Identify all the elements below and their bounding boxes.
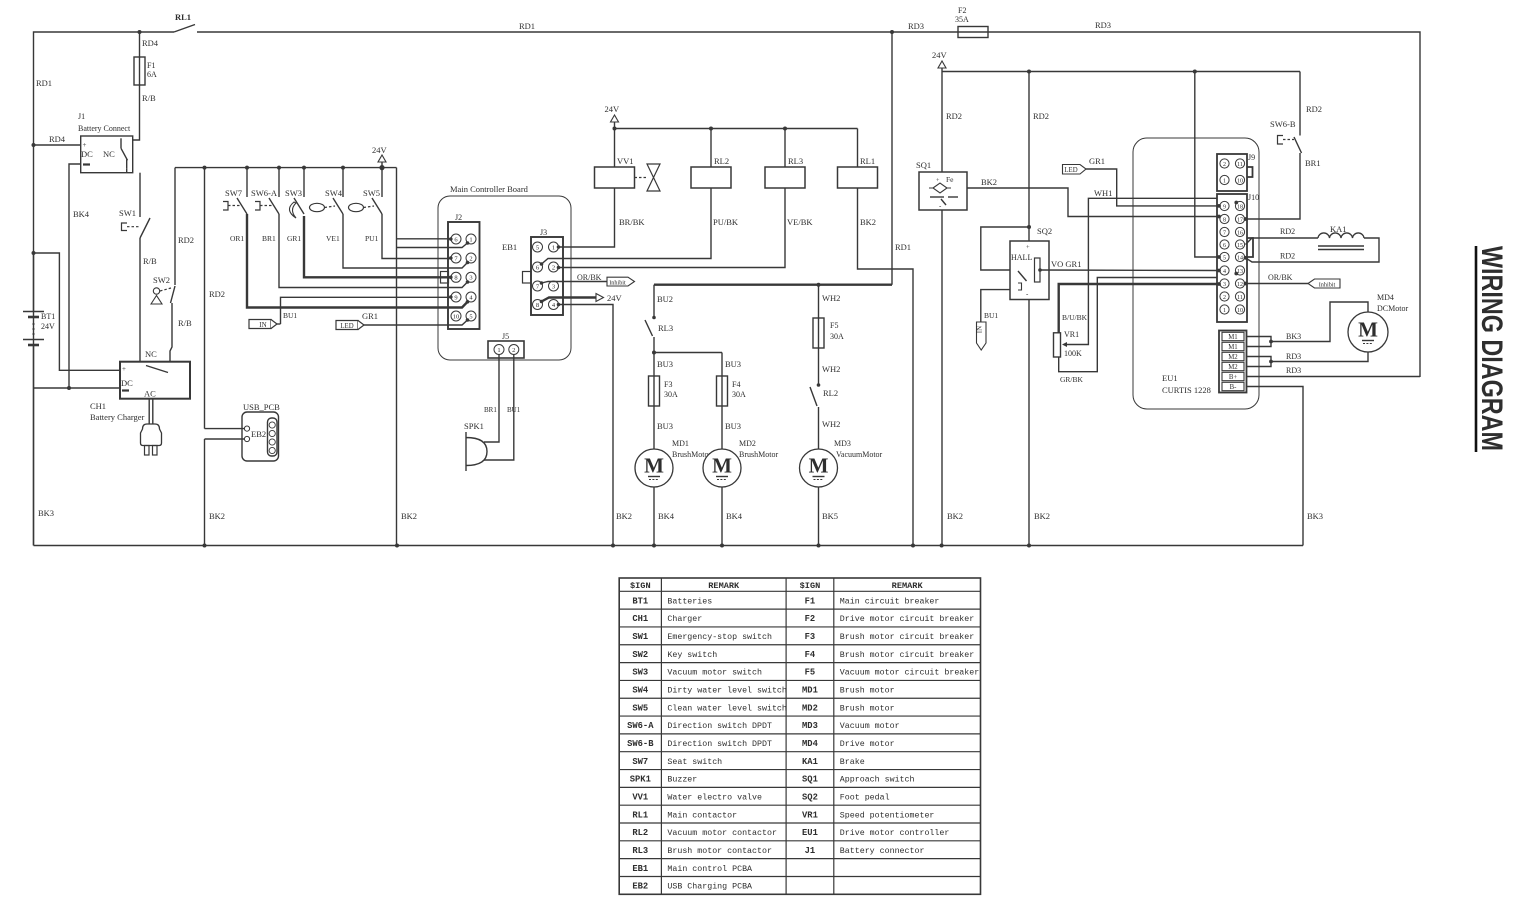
svg-text:RD4: RD4 [142,38,159,48]
svg-text:2: 2 [1223,162,1226,168]
svg-text:RL1: RL1 [860,156,875,166]
svg-text:RD3: RD3 [1095,20,1111,30]
svg-text:GR1: GR1 [1089,156,1105,166]
junction WH2 vacuum branch [817,283,821,287]
svg-text:SW4: SW4 [632,686,649,696]
svg-text:VR1: VR1 [1064,330,1079,339]
svg-text:M: M [1358,318,1378,342]
junction HALL feed [1027,225,1031,229]
svg-text:SW5: SW5 [632,703,648,713]
wire SW6-B chain RD2 [1299,72,1301,136]
svg-text:Drive motor circuit breaker: Drive motor circuit breaker [840,614,974,624]
wire top rail RD1/RD3 left segment [34,32,175,546]
svg-text:M1: M1 [1228,344,1237,351]
connector J10 [1217,194,1247,322]
svg-text:24V: 24V [932,50,948,60]
wire SW3 out to J2 pin8 bold [304,216,451,277]
wire RD4 battery to J1 [34,144,81,146]
wire RD2 KA1 return to J10 pin14 [1246,238,1380,262]
wire J3 pin7 OR/BK to inhibit tag [542,282,608,284]
junction bottom bus [911,544,915,548]
wire J5 pin1 to buzzer BR1 [484,355,499,443]
svg-text:100K: 100K [1064,349,1082,358]
svg-text:GR/BK: GR/BK [1060,375,1084,384]
junction bottom bus [817,544,821,548]
svg-text:MD3: MD3 [802,721,818,731]
svg-text:WH2: WH2 [822,364,840,374]
svg-text:USB Charging PCBA: USB Charging PCBA [667,882,752,892]
svg-text:SW6-B: SW6-B [1270,119,1296,129]
svg-text:1: 1 [1223,178,1226,184]
wire 24V rail RD2 [942,71,1300,73]
wire BU2 drop [653,285,655,318]
wiper arrow VR1 [1062,342,1067,347]
svg-text:BU1: BU1 [507,406,521,414]
wire RD2 drop to SQ1 [941,72,943,173]
svg-text:RL3: RL3 [658,323,673,333]
svg-text:RD2: RD2 [178,235,194,245]
wire SW6-A out to J2 pin3 [279,214,468,288]
svg-text:BU3: BU3 [725,359,741,369]
svg-text:RL2: RL2 [714,156,729,166]
wire R/B SW1 to charger NC [139,238,141,362]
wire IN tag BU1 to J2 pin9 [281,297,451,318]
node top RD3 junction [890,30,894,34]
svg-text:Fe: Fe [946,175,954,184]
switch SW1 emergency stop [139,173,141,217]
svg-text:BU2: BU2 [657,294,673,304]
svg-text:BK2: BK2 [1034,511,1050,521]
svg-text:SW7: SW7 [225,188,242,198]
svg-text:BK4: BK4 [726,511,743,521]
svg-text:VV1: VV1 [617,156,634,166]
svg-text:BR1: BR1 [484,406,497,414]
wire J5 pin2 to buzzer BU1 [484,355,514,461]
svg-text:1: 1 [1223,308,1226,314]
wire SW5 out to J2 pin7 [382,214,451,259]
terminal block M1 M2 B [1219,331,1247,393]
svg-text:EB1: EB1 [632,864,648,874]
svg-text:2: 2 [552,264,555,271]
svg-text:RD2: RD2 [209,289,225,299]
svg-text:EU1: EU1 [802,828,818,838]
svg-text:F2: F2 [958,6,966,15]
svg-text:LED: LED [1064,167,1077,174]
svg-text:Dirty water level switch: Dirty water level switch [667,686,787,696]
svg-text:BK3: BK3 [1307,511,1323,521]
svg-text:RD3: RD3 [1286,366,1301,375]
svg-text:15: 15 [1237,243,1243,249]
wire RD1 vertical [891,32,893,285]
svg-text:USB_PCB: USB_PCB [243,402,280,412]
svg-text:BK2: BK2 [616,511,632,521]
wire SW7 out to J2 pin4 bold [247,214,468,308]
wire BK3 B- down to bus [1246,387,1303,546]
svg-text:Batteries: Batteries [667,596,712,606]
svg-text:Emergency-stop switch: Emergency-stop switch [667,632,772,642]
svg-text:Vacuum motor: Vacuum motor [840,722,900,731]
svg-text:PU1: PU1 [365,234,379,243]
svg-text:Inhibit: Inhibit [609,279,626,286]
svg-text:5: 5 [1223,255,1226,261]
svg-text:SPK1: SPK1 [464,421,484,431]
tag Inhibit at J3 [607,277,635,286]
wire RD3 M2 pair to MD4 [1246,357,1271,367]
svg-text:Inhibit: Inhibit [1319,281,1336,288]
junction bottom bus [720,544,724,548]
connector J9 [1217,154,1247,191]
contact inside J1 [120,138,122,148]
svg-text:6A: 6A [147,70,157,79]
svg-text:EB1: EB1 [502,242,517,252]
wire BK- battery to charger [34,387,121,389]
svg-text:9: 9 [454,294,457,301]
connector J2 [448,222,480,329]
svg-text:SQ2: SQ2 [1037,226,1052,236]
svg-text:9: 9 [1223,204,1226,210]
svg-text:1: 1 [552,244,555,251]
svg-text:MD1: MD1 [672,439,689,448]
svg-text:LED: LED [340,323,353,330]
svg-text:SQ1: SQ1 [916,160,931,170]
svg-text:MD4: MD4 [802,739,819,749]
svg-text:Vacuum motor contactor: Vacuum motor contactor [667,829,777,838]
svg-text:35A: 35A [955,15,969,24]
wire 24V switch bus [175,167,397,169]
svg-text:R/B: R/B [143,256,157,266]
svg-text:BK2: BK2 [981,177,997,187]
svg-text:Main contactor: Main contactor [667,810,737,820]
svg-text:6: 6 [1223,243,1226,249]
svg-text:Key switch: Key switch [667,650,717,660]
relay coil RL1 [857,129,859,168]
wire BK2 USB PCB to bus [204,439,206,546]
svg-text:RD1: RD1 [519,21,535,31]
svg-text:F5: F5 [830,321,838,330]
svg-text:14: 14 [1237,255,1243,261]
junction bottom bus [940,544,944,548]
wire 24V to J2 pin1 [397,243,468,248]
svg-text:BU3: BU3 [657,421,673,431]
svg-text:Direction switch DPDT: Direction switch DPDT [667,721,772,731]
svg-text:SW4: SW4 [325,188,343,198]
svg-text:BR1: BR1 [1305,158,1321,168]
svg-text:4: 4 [1223,269,1226,275]
svg-text:24V: 24V [605,104,621,114]
svg-text:EU1: EU1 [1162,373,1178,383]
svg-text:BrushMotor: BrushMotor [739,450,778,459]
tag IN flag BU1 [249,320,271,329]
svg-text:SW6-A: SW6-A [627,721,654,731]
svg-text:30A: 30A [664,390,678,399]
svg-text:J1: J1 [78,112,85,121]
power arrow 24V above bus [379,165,384,170]
svg-text:J10: J10 [1248,193,1259,202]
wire WH2 bold horizontal [654,284,892,286]
svg-text:RD2: RD2 [946,111,962,121]
svg-text:BK4: BK4 [658,511,675,521]
svg-text:BK2: BK2 [401,511,417,521]
svg-text:KA1: KA1 [802,757,818,767]
svg-text:Approach switch: Approach switch [840,775,915,785]
wire OR/BK J10 pin12 to inhibit [1246,283,1309,285]
svg-text:J9: J9 [1248,153,1255,162]
svg-text:Speed potentiometer: Speed potentiometer [840,810,935,820]
svg-text:11: 11 [1237,295,1243,301]
power arrow 24V right rail [938,61,946,68]
svg-text:RD2: RD2 [1280,227,1295,236]
svg-text:10: 10 [1237,178,1243,184]
svg-text:24V: 24V [372,145,388,155]
svg-text:SW6-A: SW6-A [251,188,278,198]
wire top rail to F2 [197,31,958,33]
svg-text:OR/BK: OR/BK [1268,273,1293,282]
switch SW6-A [277,166,281,170]
svg-text:NC: NC [145,349,157,359]
fuse F1 6A [139,57,141,85]
switch SW7 [245,166,249,170]
svg-text:WH2: WH2 [822,419,840,429]
drive controller EU1 outline [1133,138,1259,409]
svg-text:J3: J3 [540,228,547,237]
pin bump J2 pin8 [441,272,449,284]
svg-text:8: 8 [1223,217,1226,223]
svg-text:VE1: VE1 [326,234,340,243]
svg-text:RD2: RD2 [1280,252,1295,261]
svg-text:RD2: RD2 [1033,111,1049,121]
svg-text:AC: AC [144,389,156,399]
svg-text:SW1: SW1 [119,208,136,218]
svg-text:CH1: CH1 [90,401,106,411]
svg-text:BU1: BU1 [984,311,998,320]
svg-text:F1: F1 [805,596,816,606]
svg-text:SPK1: SPK1 [630,775,651,785]
svg-text:M2: M2 [1228,354,1238,361]
wire RL1 coil BK2 to bus [858,188,914,546]
wire HALL bottom-left to IN tag [981,290,1010,322]
battery BT1 24V [33,253,35,311]
connector J3 [531,237,563,315]
svg-text:MD1: MD1 [802,686,818,696]
svg-text:RD2: RD2 [1306,104,1322,114]
svg-text:J5: J5 [502,332,509,341]
svg-text:BK5: BK5 [822,511,838,521]
svg-text:HALL: HALL [1011,253,1032,262]
svg-text:5: 5 [536,244,539,251]
svg-text:BK3: BK3 [1286,332,1301,341]
contact RL3 brush [652,316,656,320]
junction bottom bus [1027,544,1031,548]
svg-text:8: 8 [536,302,539,309]
valve VV1 coil [595,167,635,188]
svg-text:GR1: GR1 [362,311,378,321]
svg-text:F5: F5 [805,668,816,678]
AC plug of charger [148,399,150,424]
svg-text:BT1: BT1 [41,312,55,321]
svg-text:KA1: KA1 [1330,224,1347,234]
wire BK2 SQ1 down to bus [941,210,943,546]
svg-text:EB2: EB2 [251,429,266,439]
junction brush branches [652,351,656,355]
svg-text:M: M [644,454,664,478]
wire bus end down BK2 long vertical [396,168,398,546]
svg-text:REMARK: REMARK [708,581,740,591]
svg-text:RL1: RL1 [632,810,648,820]
fuse F4 30A [721,376,723,406]
wire BK3 M1 pair to MD4 [1246,337,1271,347]
svg-text:8: 8 [454,275,457,282]
svg-text:BU1: BU1 [283,311,297,320]
svg-text:5: 5 [469,313,472,320]
legend table [619,578,980,894]
wire RD3 B+ to border [1246,376,1420,378]
tag IN flag vertical BU1 [977,322,987,350]
svg-text:F4: F4 [732,380,740,389]
svg-text:F1: F1 [147,61,155,70]
junction bottom bus [203,544,207,548]
svg-text:PU/BK: PU/BK [713,217,739,227]
svg-text:Charger: Charger [667,614,702,624]
svg-text:VO GR1: VO GR1 [1051,259,1081,269]
connector J5 [488,341,524,358]
wire RD4 drop to F1 [139,32,141,57]
svg-text:24V: 24V [607,293,623,303]
wire WH2 F5 to RL2 contact [818,348,820,385]
svg-text:J1: J1 [805,846,816,856]
wire bottom bus BK [34,545,1304,547]
node battery positive branch [32,251,36,255]
svg-text:MD2: MD2 [739,439,756,448]
wire MD3 BK5 to bus [818,487,820,546]
svg-text:Battery Charger: Battery Charger [90,412,145,422]
svg-text:VacuumMotor: VacuumMotor [836,450,883,459]
wire GR/BK VR1 bottom to J10 pin13 [1059,274,1237,372]
svg-text:WH1: WH1 [1094,188,1112,198]
wire J3 pin8 to 24V arrow [542,298,597,302]
potentiometer VR1 100K [1054,333,1061,357]
svg-text:10: 10 [453,313,460,320]
wire J3 pin6 to RL2 PU/BK [542,188,712,264]
svg-text:$IGN: $IGN [630,581,651,591]
wire J3 pin2 to RL3 VE/BK [559,188,786,268]
wire BU3 to MD1 [653,406,655,449]
svg-text:BK2: BK2 [209,511,225,521]
svg-text:RD3: RD3 [908,21,924,31]
svg-text:OR/BK: OR/BK [577,273,602,282]
svg-text:CH1: CH1 [632,614,648,624]
svg-text:DCMotor: DCMotor [1377,304,1408,313]
svg-text:Clean water level switch: Clean water level switch [667,703,787,713]
wire 24V feed to relays [615,128,858,130]
svg-text:30A: 30A [732,390,746,399]
svg-text:NC: NC [103,149,115,159]
svg-text:3: 3 [552,283,555,290]
junction bottom bus [652,544,656,548]
fuse F5 30A [818,318,820,348]
svg-text:24V: 24V [41,322,55,331]
svg-text:REMARK: REMARK [892,581,924,591]
svg-text:SQ1: SQ1 [802,775,818,785]
svg-text:B-: B- [1230,384,1238,391]
svg-text:J2: J2 [455,213,462,222]
svg-text:VR1: VR1 [802,810,818,820]
svg-text:Direction switch DPDT: Direction switch DPDT [667,739,772,749]
svg-text:VE/BK: VE/BK [787,217,813,227]
svg-text:3: 3 [1223,282,1226,288]
wire B/U/BK VR1 top to J10 pin3 [1059,284,1219,333]
svg-text:RD1: RD1 [895,242,911,252]
svg-text:7: 7 [1223,230,1226,236]
switch SW4 [341,166,345,170]
svg-text:EB2: EB2 [632,882,648,892]
main controller board EB1 outline [438,196,571,360]
svg-text:1: 1 [497,347,500,354]
wire RD2 J10 pin15 to KA1 [1246,238,1319,245]
fuse F2 35A [958,27,988,38]
svg-text:IN: IN [976,326,984,333]
svg-text:SW2: SW2 [632,650,648,660]
wire BK2 SQ1 to J10 pin8 [967,188,1219,217]
svg-text:DC: DC [121,378,133,388]
fuse F3 30A [653,376,655,406]
svg-text:SW3: SW3 [632,668,648,678]
junction bottom bus [611,544,615,548]
wire R/B fuse to J1 [133,85,140,140]
svg-text:MD3: MD3 [834,439,851,448]
svg-text:SW6-B: SW6-B [627,739,654,749]
svg-text:RL2: RL2 [632,828,648,838]
junction bottom bus [395,544,399,548]
svg-text:B/U/BK: B/U/BK [1062,313,1088,322]
power arrow 24V relay feed [611,115,619,122]
svg-text:Brush motor circuit breaker: Brush motor circuit breaker [840,632,974,642]
svg-text:10: 10 [1237,308,1243,314]
svg-text:RL1: RL1 [175,12,191,22]
svg-text:BU3: BU3 [725,421,741,431]
contact inside CH1 [146,366,168,373]
svg-text:BR1: BR1 [262,234,276,243]
wire R/B SW2 to charger [170,303,172,362]
svg-text:Battery connector: Battery connector [840,847,925,856]
contact RL2 vacuum [817,383,821,387]
wire top rail RD3 right segment [988,32,1420,377]
svg-text:M: M [712,454,732,478]
svg-text:11: 11 [1237,162,1243,168]
svg-text:2: 2 [469,255,472,262]
switch SW5 [380,166,384,170]
svg-text:B+: B+ [1229,374,1238,381]
svg-text:SW7: SW7 [632,757,648,767]
svg-text:SW5: SW5 [363,188,380,198]
pin bump J3 [523,272,532,284]
svg-text:17: 17 [1237,217,1243,223]
svg-text:M: M [809,454,829,478]
svg-text:Main circuit breaker: Main circuit breaker [840,596,940,606]
wire RD2 drop to USB PCB [204,168,206,429]
svg-text:RL3: RL3 [788,156,803,166]
wire to J2 pin6 24V [397,238,451,240]
svg-text:Seat switch: Seat switch [667,757,722,767]
svg-text:Battery Connect: Battery Connect [78,124,131,133]
svg-text:SW1: SW1 [632,632,648,642]
svg-text:Drive motor: Drive motor [840,739,895,749]
svg-text:RD1: RD1 [36,78,52,88]
svg-text:F4: F4 [805,650,816,660]
svg-text:MD2: MD2 [802,703,818,713]
wire LED GR1 to J10 pin9 [1086,169,1219,206]
svg-text:F2: F2 [805,614,816,624]
connector J1 battery connect [81,136,133,173]
